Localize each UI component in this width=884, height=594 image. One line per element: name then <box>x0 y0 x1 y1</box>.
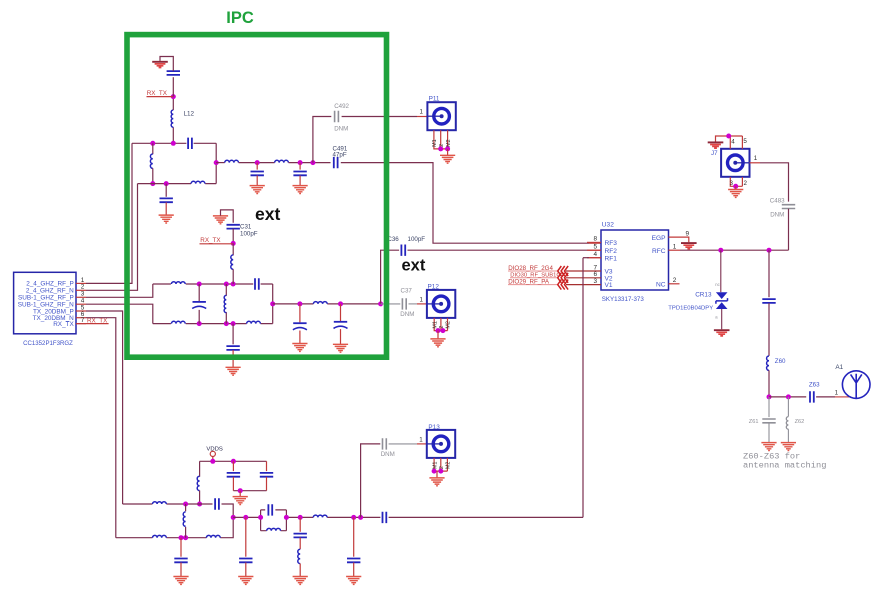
junction P12 shield 2 <box>440 328 445 333</box>
svg-text:L12: L12 <box>184 111 195 118</box>
wire interstage inductor leads <box>185 504 187 538</box>
wire cap branch down <box>165 184 167 197</box>
P11 ground stem <box>447 149 449 155</box>
capacitor main shunt 2 <box>347 559 360 563</box>
wire C36 to RF2 <box>408 249 590 251</box>
U1 pin 3 stub <box>76 296 86 298</box>
svg-text:a: a <box>715 315 718 320</box>
svg-text:8: 8 <box>594 236 598 243</box>
net label RX_TX mid <box>200 243 234 245</box>
wire main shunt2 lead <box>353 517 355 556</box>
wire C491 to corner down to RF3 <box>341 163 589 244</box>
svg-text:M1: M1 <box>432 462 438 470</box>
inductor sub1 series <box>231 255 233 269</box>
wire Z61 lead <box>768 397 770 417</box>
wire antenna rail <box>769 396 806 398</box>
junction P13 riser <box>358 515 363 520</box>
capacitor main rail series out <box>383 512 387 523</box>
wire 2.4G balun top rail <box>132 142 216 144</box>
node RX_TX top <box>171 94 176 99</box>
connector J7 SMA <box>721 149 749 177</box>
IC U1 CC1352P1F3RGZ body <box>14 272 76 334</box>
ground lowpass 1 <box>250 186 265 194</box>
wire decoupling cap2 lower lead <box>266 477 268 491</box>
capacitor shunt lowpass 1 <box>251 172 264 176</box>
junction choke rail1 <box>197 502 202 507</box>
wire shunt x299 lead <box>299 304 301 323</box>
wire P13 pin1 stub <box>417 443 427 445</box>
svg-text:Z62: Z62 <box>795 419 805 425</box>
wire P11 pin1 stub <box>417 116 427 118</box>
svg-text:1: 1 <box>673 244 677 251</box>
capacitor VDDS decoupling 2 <box>260 473 273 477</box>
wire L12 branch lower <box>172 127 174 143</box>
svg-text:2: 2 <box>81 284 85 291</box>
svg-text:DIO29_RF_PA: DIO29_RF_PA <box>508 279 550 286</box>
wire C31 to RX_TX node <box>232 229 234 244</box>
junction decoupling ground <box>238 488 243 493</box>
svg-text:47pF: 47pF <box>333 152 347 159</box>
J7 bottom pins 3 and 2 <box>730 177 742 186</box>
IPC boundary box <box>127 35 387 358</box>
wire between lowpass stages <box>239 162 275 164</box>
svg-text:SKY13317-373: SKY13317-373 <box>602 296 645 303</box>
svg-text:RX_TX: RX_TX <box>87 317 108 324</box>
svg-text:M1: M1 <box>432 321 438 329</box>
wire Z63 to antenna <box>816 396 835 398</box>
wire 2.4G output to first inductor <box>216 162 225 164</box>
wire J7 pin1 to C483 <box>750 162 761 164</box>
capacitor C37 DNM <box>402 298 406 309</box>
inductor LCR branch <box>298 549 300 563</box>
wire sub1 balun to shunt cap below <box>232 324 234 345</box>
IC U32 SKY13317-373 body <box>601 230 669 290</box>
svg-text:2: 2 <box>439 326 445 329</box>
svg-text:2_4_GHZ_RF_N: 2_4_GHZ_RF_N <box>26 288 74 295</box>
junction bottom rail with shunt inductor <box>150 181 155 186</box>
wire cap to ground hook <box>160 57 173 71</box>
ground main shunt 1 <box>238 577 253 585</box>
wire shunt cap 2 to ground <box>299 176 301 186</box>
svg-text:2: 2 <box>439 466 445 469</box>
svg-text:P11: P11 <box>429 96 440 103</box>
wire L12 to RX_TX node <box>172 97 174 110</box>
parallel LC tank wires <box>261 510 287 531</box>
wire C37 to P12 gray <box>409 303 418 305</box>
U1 pin 1 stub <box>76 282 86 284</box>
wire P13 riser <box>361 444 381 518</box>
junction P13 shield 1 <box>432 469 437 474</box>
node antenna matching 1 <box>767 394 772 399</box>
ground x299 <box>292 344 307 352</box>
inductor LC tank <box>267 528 281 530</box>
junction main rail cap branch <box>243 515 248 520</box>
wire sub1 balun top rail <box>153 283 273 285</box>
capacitor C36 100pF <box>401 245 405 256</box>
wire VDDS rail <box>200 460 267 462</box>
wire RF1 riser from PA network <box>582 258 584 518</box>
wire pin5 TX_20DBM_P down to PA network <box>86 311 123 504</box>
ground VDDS decoupling <box>233 497 248 505</box>
junction output x299 <box>297 301 302 306</box>
junction RFC CR13 <box>718 248 723 253</box>
wire P13 DNM to connector gray <box>389 443 417 445</box>
ground C31 hook <box>213 216 228 224</box>
capacitor LCR branch <box>294 534 307 538</box>
svg-text:Z60: Z60 <box>775 358 786 365</box>
svg-text:3: 3 <box>730 180 734 187</box>
wire sub1 balun bottom rail <box>153 323 273 325</box>
U1 pin 5 stub <box>76 310 86 312</box>
wire shunt cap to ground below IPC <box>232 350 234 367</box>
inductor 2.4G lowpass 2 <box>275 160 289 162</box>
ground EGP <box>681 243 697 249</box>
inductor sub1 output series <box>313 302 327 304</box>
wire C31 ground hook <box>221 210 234 223</box>
capacitor at top of L12 chain <box>167 71 180 75</box>
wire shunt x340 lead <box>340 304 342 321</box>
wire pin3 SUB1_P into IPC <box>86 284 153 297</box>
wire PA main rail <box>233 516 583 518</box>
wire balun right edge <box>272 284 274 324</box>
inductor interstage shunt <box>183 512 185 526</box>
svg-text:ext: ext <box>255 204 280 224</box>
inductor Z62 DNM <box>786 417 788 430</box>
wire PA rail2 <box>116 517 233 537</box>
wire sub1 output rail <box>273 303 381 305</box>
junction top rail x199 <box>197 282 202 287</box>
P11 shield pins <box>434 130 448 149</box>
svg-text:CC1352P1F3RGZ: CC1352P1F3RGZ <box>23 340 73 347</box>
svg-text:EGP: EGP <box>652 235 667 242</box>
junction top rail x233 <box>231 282 236 287</box>
inductor Z60 <box>767 356 769 370</box>
svg-text:RFC: RFC <box>652 248 666 255</box>
junction bottom rail x199 <box>197 321 202 326</box>
wire RX_TX to series inductor <box>232 243 234 255</box>
svg-text:antenna matching: antenna matching <box>743 460 826 470</box>
wire CR13 branch <box>720 250 722 292</box>
P12 shield pins <box>434 318 447 331</box>
wire EGP to ground <box>669 237 689 242</box>
svg-text:1: 1 <box>835 390 839 397</box>
svg-text:NC: NC <box>656 282 666 289</box>
wire decoupling cap1 lower lead <box>232 477 234 491</box>
capacitor PA rail1 series <box>215 498 219 509</box>
P13 ground stem <box>436 471 438 478</box>
svg-text:U32: U32 <box>602 222 614 229</box>
wire C492 branch up <box>313 117 331 163</box>
net DIO29_RF_PA wire <box>508 284 558 286</box>
svg-text:Z61: Z61 <box>749 419 759 425</box>
capacitor C491 47pF <box>334 157 338 168</box>
svg-text:DNM: DNM <box>770 212 784 219</box>
svg-text:DNM: DNM <box>381 451 395 458</box>
junction RFC antenna branch <box>767 248 772 253</box>
U1 pin 7 stub <box>76 323 86 325</box>
wire cap to Z60 <box>768 303 770 356</box>
inductor main rail series <box>313 515 327 517</box>
wire rail2 cap to ground branch <box>180 538 182 557</box>
P13 shield pins <box>434 458 447 471</box>
wire shunt inductor upper lead <box>152 143 154 154</box>
node RX_TX mid <box>231 241 236 246</box>
junction output x340 <box>338 301 343 306</box>
wire main shunt2 ground lead <box>353 563 355 577</box>
P12 ground stem <box>437 331 439 339</box>
ground LCR branch <box>293 577 308 585</box>
svg-text:Z63: Z63 <box>809 382 820 389</box>
net DIO30_RF_SUB1G wire <box>510 277 558 279</box>
junction VDDS cap branch <box>231 459 236 464</box>
U1 pin 4 stub <box>76 303 86 305</box>
svg-text:C483: C483 <box>770 197 785 204</box>
svg-text:2: 2 <box>744 180 748 187</box>
inductor sub1 top rail <box>171 282 185 284</box>
wire shunt cap 1 to ground <box>256 176 258 186</box>
wire P12 DNM branch gray <box>381 303 401 305</box>
capacitor VDDS decoupling 1 <box>227 473 240 477</box>
junction rail2 interstage <box>183 535 188 540</box>
capacitor antenna series <box>762 299 775 303</box>
svg-text:4: 4 <box>731 139 735 146</box>
svg-text:DNM: DNM <box>400 311 414 318</box>
junction C492 tap <box>310 160 315 165</box>
svg-text:M2: M2 <box>446 139 452 147</box>
svg-text:1: 1 <box>420 296 424 303</box>
inductor PA rail2 a <box>153 535 167 537</box>
wire pin4 SUB1_N into IPC <box>86 304 153 323</box>
junction tank right <box>284 515 289 520</box>
svg-text:nc: nc <box>715 282 719 287</box>
capacitor C31 100pF <box>227 225 240 229</box>
wire shunt inductor lower lead <box>152 168 154 183</box>
inductor L12 <box>171 110 173 127</box>
wire shunt cap 2 lead <box>299 163 301 170</box>
wire Z62 to ground <box>787 429 789 442</box>
ground below 2.4G balun <box>159 215 174 223</box>
junction P13 shield 2 <box>438 469 443 474</box>
svg-text:A1: A1 <box>835 364 843 371</box>
inductor sub1 bottom rail 2 <box>247 321 261 323</box>
wire RFC output <box>669 249 681 251</box>
svg-text:M2: M2 <box>446 321 452 329</box>
wire ext riser to RF2 line <box>381 250 400 304</box>
svg-text:100pF: 100pF <box>408 236 426 243</box>
svg-text:M1: M1 <box>432 139 438 147</box>
inductor sub1 bottom rail <box>171 321 185 323</box>
ground Z62 <box>781 443 796 451</box>
svg-text:4: 4 <box>594 251 598 258</box>
svg-text:CR13: CR13 <box>695 292 712 299</box>
wire 2.4G balun bottom rail <box>138 143 217 183</box>
wire LCR branch cap lead <box>299 517 301 531</box>
capacitor shunt x299 curved <box>293 323 307 330</box>
svg-text:TPD1E0B04DPY: TPD1E0B04DPY <box>668 306 713 312</box>
junction VDDS stem <box>210 459 215 464</box>
wire pin6 TX_20DBM_N down to PA network <box>86 318 116 538</box>
junction bottom rail x226 <box>224 321 229 326</box>
capacitor main shunt 1 <box>239 559 252 563</box>
ground rail2 shunt <box>173 577 188 585</box>
wire shunt x299 to ground <box>299 331 301 344</box>
svg-text:100pF: 100pF <box>240 230 258 237</box>
wire shunt cap 1 lead <box>256 163 258 170</box>
wire balun mid vertical 2 <box>225 284 227 324</box>
capacitor LC tank <box>268 504 272 515</box>
svg-text:M2: M2 <box>446 462 452 470</box>
svg-text:V1: V1 <box>605 282 613 289</box>
svg-text:DNM: DNM <box>334 125 348 132</box>
junction top rail with shunt inductor <box>150 141 155 146</box>
ground J7 bottom <box>728 190 743 198</box>
svg-text:C37: C37 <box>401 288 413 295</box>
capacitor sub1 shunt to gnd <box>226 346 239 350</box>
wire main cap branch lead <box>245 517 247 556</box>
wire PA rail1 <box>123 504 234 517</box>
wire Z60 to antenna node <box>768 370 770 397</box>
connector P12 SMA <box>427 290 455 318</box>
rip symbol V2 <box>558 273 568 283</box>
svg-text:P12: P12 <box>428 283 440 290</box>
svg-text:RF3: RF3 <box>605 240 618 247</box>
svg-text:2: 2 <box>439 144 445 147</box>
junction P11 shield 1 <box>438 146 443 151</box>
wire shunt x340 to ground <box>340 329 342 344</box>
junction J7 top <box>726 134 731 139</box>
ground P13 <box>429 478 444 486</box>
J7 top pins 4 and 5 <box>716 136 743 149</box>
ground x340 <box>333 344 348 352</box>
wire RF1 red stub2 <box>589 257 601 259</box>
wire C492 to P11 <box>342 116 417 118</box>
capacitor on 2.4G top rail <box>188 138 192 149</box>
ground below IPC box <box>226 367 241 375</box>
wire VDDS stem <box>212 457 214 462</box>
svg-text:3: 3 <box>594 278 598 285</box>
ground Z61 <box>761 443 776 451</box>
capacitor Z61 DNM <box>762 419 775 423</box>
wire LCR branch mid <box>299 538 301 550</box>
capacitor sub1 top rail <box>255 278 259 289</box>
node sub1 output <box>270 301 275 306</box>
svg-text:RX_TX: RX_TX <box>53 321 74 328</box>
junction bottom rail cap branch <box>164 181 169 186</box>
svg-text:J7: J7 <box>711 150 718 157</box>
wire lowpass to C491 <box>289 162 331 164</box>
wire C483 to RFC line <box>788 209 790 251</box>
inductor PA rail2 b <box>206 535 220 537</box>
svg-text:1: 1 <box>420 109 424 116</box>
ground top-left <box>152 62 168 68</box>
wire P12 pin1 stub <box>417 303 427 305</box>
connector P11 SMA <box>427 102 455 130</box>
antenna A1 symbol <box>842 371 870 399</box>
net label RX_TX at U1 pin 7 <box>76 323 109 325</box>
node ext branch <box>378 301 383 306</box>
svg-text:VDDS: VDDS <box>206 447 222 453</box>
wire RF2 red stub <box>589 249 601 251</box>
junction J7 bottom <box>733 184 738 189</box>
power flag VDDS <box>210 451 215 456</box>
junction lowpass node 2 <box>298 160 303 165</box>
connector P13 SMA <box>427 430 455 458</box>
inductor PA rail1 <box>153 502 167 504</box>
svg-text:RF1: RF1 <box>605 255 618 262</box>
rip symbol V3 <box>558 266 568 276</box>
wire choke to rail1 <box>199 491 201 505</box>
capacitor shunt x340 curved <box>334 322 348 329</box>
ground lowpass 2 <box>293 186 308 194</box>
wire balun mid vertical 1 <box>198 284 200 324</box>
junction main rail LCR branch <box>298 515 303 520</box>
svg-text:DIO28_RF_2G4: DIO28_RF_2G4 <box>508 265 553 272</box>
junction lowpass node 1 <box>255 160 260 165</box>
junction top rail with L12 <box>171 141 176 146</box>
wire Z61 to ground <box>768 423 770 443</box>
wire decoupling ground stem <box>239 491 241 497</box>
svg-text:9: 9 <box>686 230 690 237</box>
inductor 2.4G lowpass 1 <box>225 160 239 162</box>
wire cap to ground <box>165 202 167 215</box>
inductor on 2.4G bottom rail <box>191 181 205 183</box>
ground P11 <box>440 155 455 163</box>
wire VDDS decoupling right branch <box>266 461 268 471</box>
wire LCR branch ground lead <box>299 564 301 577</box>
capacitor balun shunt curved <box>192 302 206 309</box>
wire NC stub <box>669 283 680 285</box>
svg-text:RX_TX: RX_TX <box>200 237 221 244</box>
rip symbol V1 <box>558 280 568 290</box>
J7 bottom ground stem <box>735 186 737 189</box>
wire pin1 2_4GHz_P to top balun rail <box>86 143 132 283</box>
inductor VDDS choke <box>197 476 199 490</box>
inductor balun mid shunt <box>224 295 226 312</box>
junction tank left <box>258 515 263 520</box>
capacitor rail2 shunt <box>174 559 187 563</box>
capacitor Z63 <box>810 391 814 402</box>
svg-text:5: 5 <box>594 244 598 251</box>
ground P12 <box>430 339 445 347</box>
svg-text:RF2: RF2 <box>605 248 618 255</box>
svg-text:7: 7 <box>81 317 85 324</box>
wire pin2 2_4GHz_N to lower balun rail <box>86 184 138 291</box>
svg-text:1: 1 <box>754 155 758 162</box>
wire RF3 red stub <box>589 242 601 244</box>
U1 pin 2 stub <box>76 289 86 291</box>
capacitor shunt at 2.4G balun <box>160 198 173 202</box>
wire CR13 to ground <box>721 309 723 329</box>
junction P11 shield 2 <box>445 146 450 151</box>
junction rail2 cap branch <box>179 535 184 540</box>
wire series inductor to rail <box>232 269 234 284</box>
shunt inductor 2.4G balun <box>150 154 152 168</box>
wire VDDS decoupling cap1 lead <box>232 461 234 471</box>
svg-text:C492: C492 <box>334 103 349 110</box>
capacitor C492 DNM <box>335 111 339 122</box>
junction top rail x226 <box>224 282 229 287</box>
capacitor P13 DNM <box>383 438 387 449</box>
junction P12 shield 1 <box>436 328 441 333</box>
wire antenna branch cap lead <box>768 250 770 297</box>
capacitor shunt lowpass 2 <box>293 172 306 176</box>
wire VDDS choke branch <box>199 461 201 476</box>
wire main shunt1 ground lead <box>245 563 247 577</box>
wire Z62 lead <box>787 397 789 417</box>
svg-text:5: 5 <box>743 138 747 145</box>
junction main rail shunt2 <box>351 515 356 520</box>
net DIO28_RF_2G4 wire <box>508 270 558 272</box>
